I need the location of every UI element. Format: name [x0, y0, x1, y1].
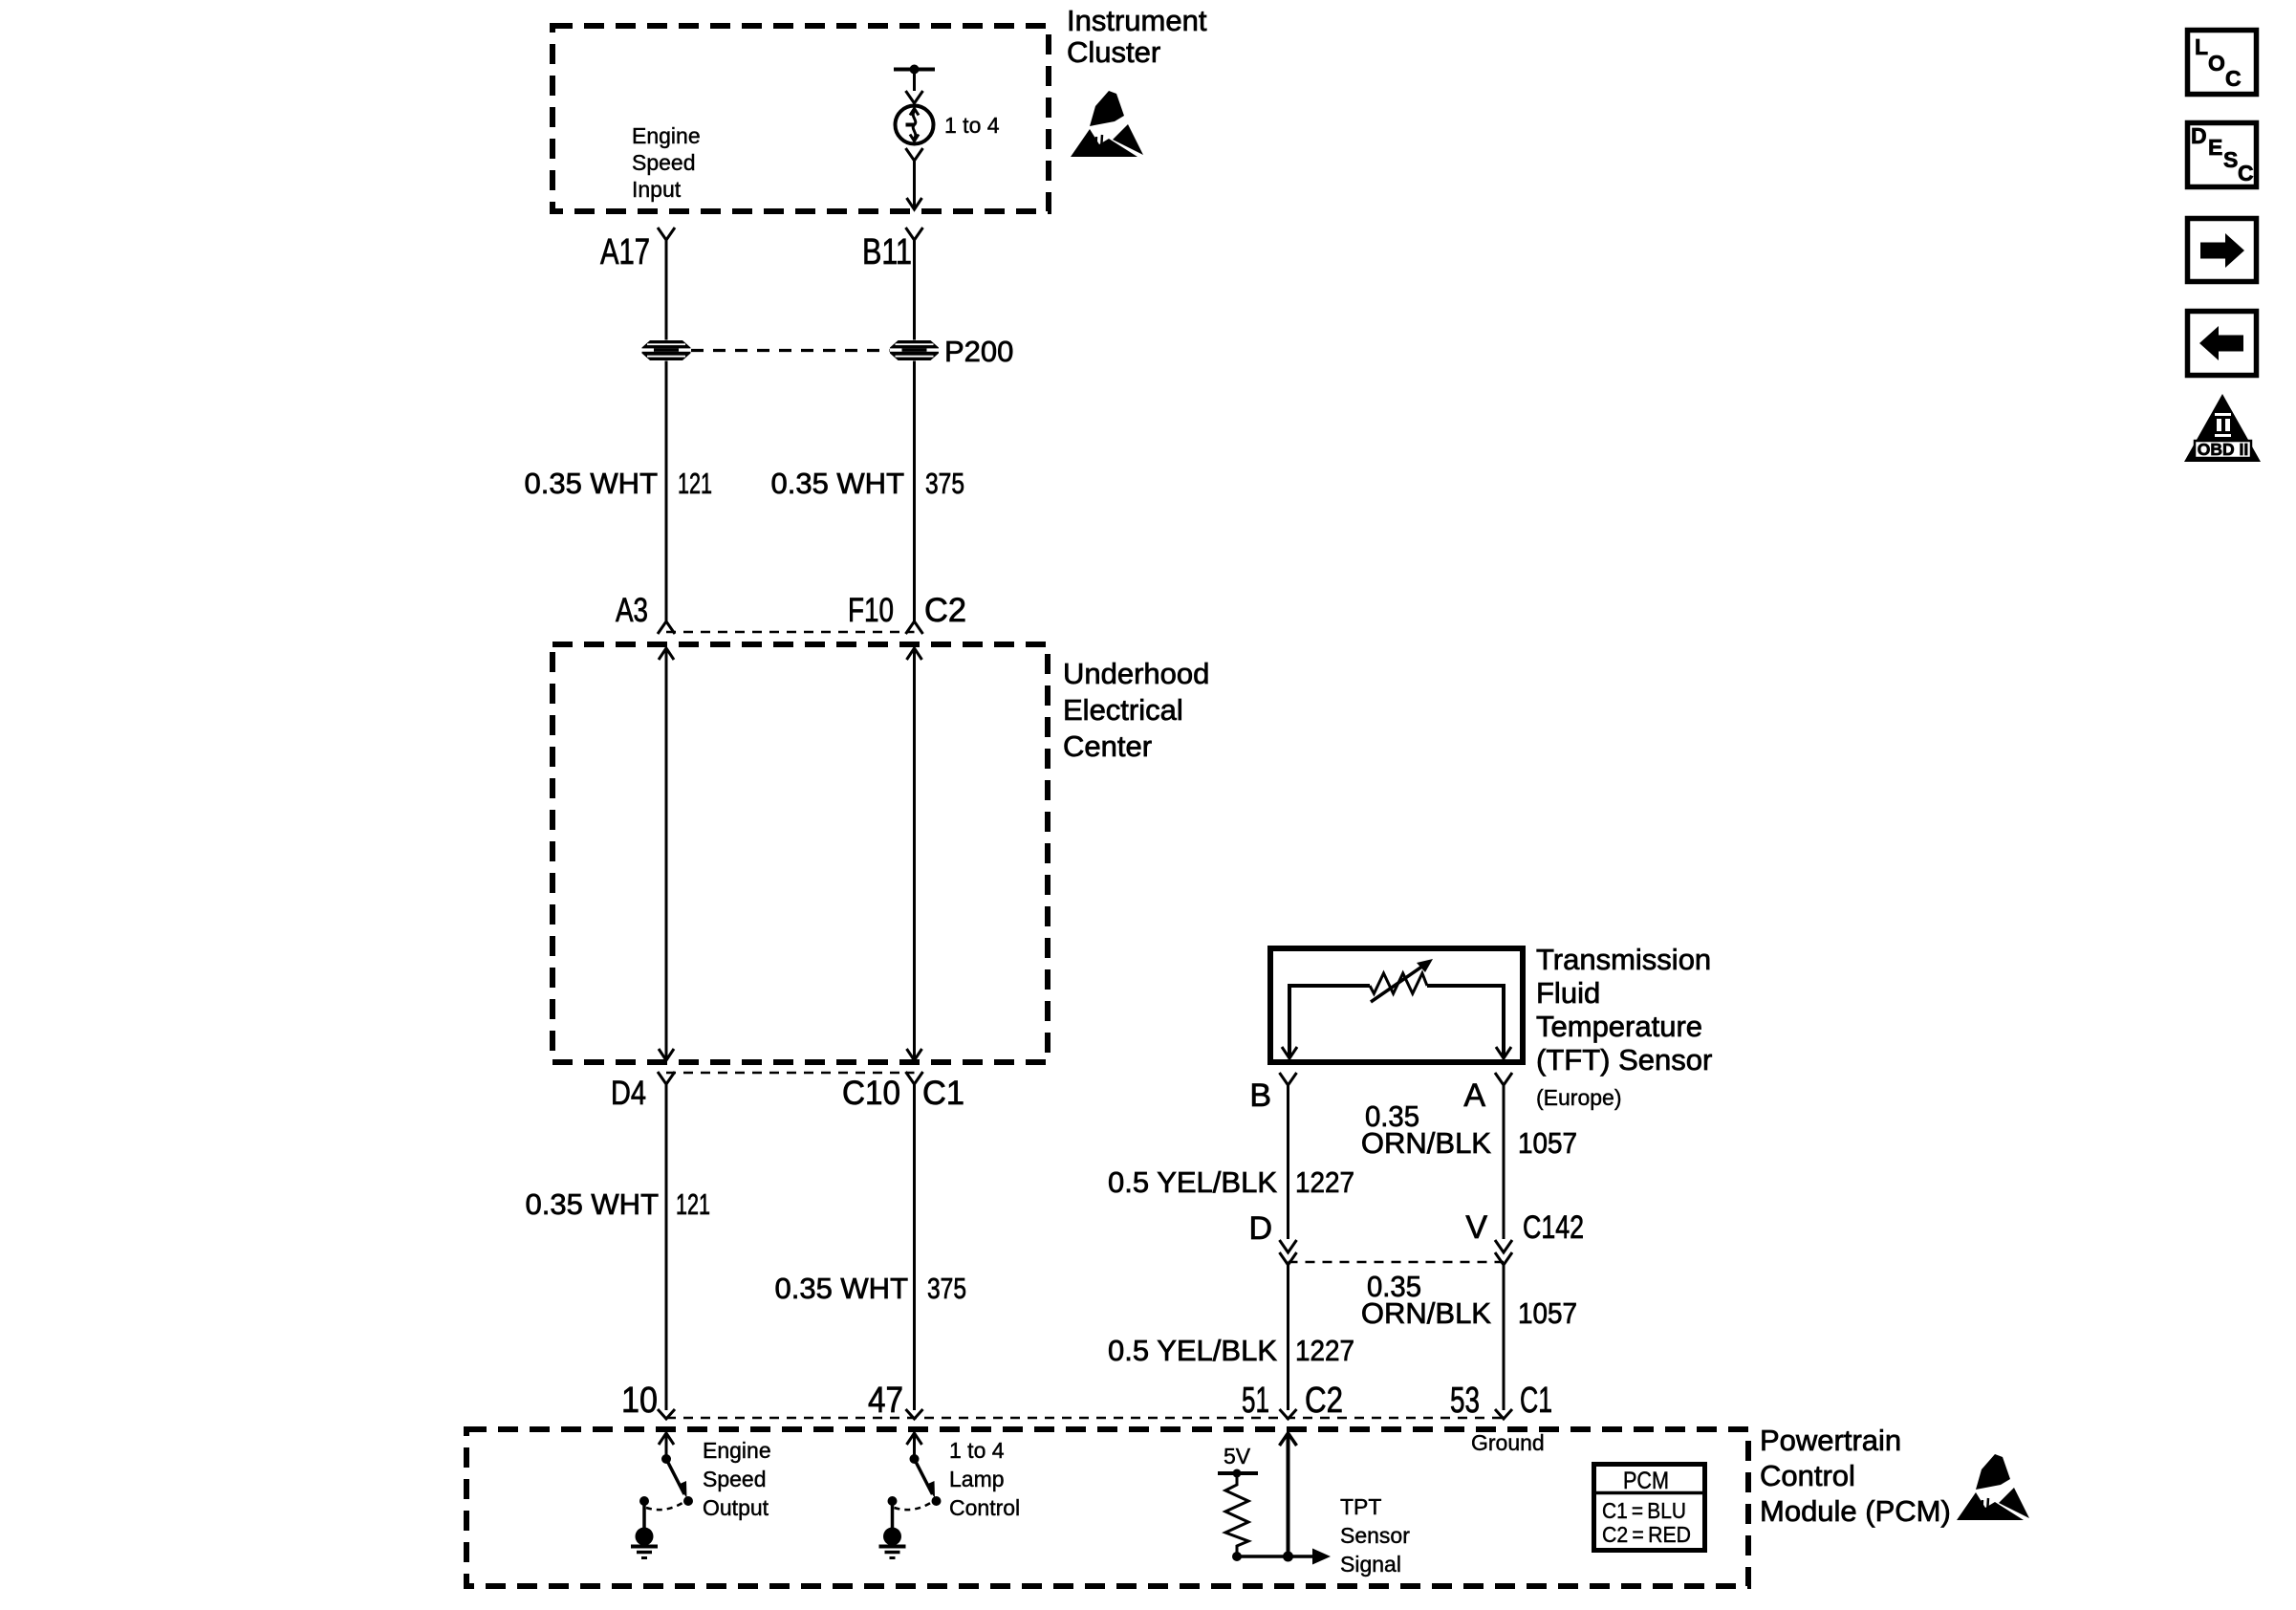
svg-text:Center: Center	[1063, 729, 1152, 763]
svg-text:E: E	[2208, 135, 2222, 160]
powertrain control module box	[466, 1429, 1748, 1586]
svg-text:Lamp: Lamp	[949, 1467, 1005, 1491]
C142 connector chevrons (right pair)	[1495, 1240, 1512, 1265]
C142 dashed connector line	[1289, 1261, 1505, 1264]
svg-text:PCM: PCM	[1623, 1468, 1669, 1494]
wire W1 mid segment	[665, 361, 668, 622]
svg-text:Engine: Engine	[703, 1438, 771, 1463]
ESD symbol (instrument cluster)	[1071, 91, 1143, 157]
TFT variable resistor arrow	[1371, 964, 1426, 1002]
arrow at TFT box bottom (left)	[1282, 1047, 1297, 1058]
1 to 4 lamp control label	[949, 1438, 1020, 1520]
forward arrow icon box	[2188, 219, 2257, 282]
svg-text:0.5 YEL/BLK: 0.5 YEL/BLK	[1108, 1165, 1277, 1199]
svg-text:A: A	[1463, 1077, 1485, 1114]
5V supply bar	[1218, 1471, 1258, 1475]
svg-text:Ground: Ground	[1471, 1430, 1545, 1455]
wire W1 inside underhood box	[665, 648, 668, 1060]
svg-text:C10: C10	[842, 1075, 900, 1112]
C142 connector chevrons (left pair)	[1280, 1240, 1297, 1265]
thin dashed connector line (A3-F10)	[666, 631, 915, 634]
svg-text:ORN/BLK: ORN/BLK	[1361, 1296, 1491, 1330]
arrow at underhood box bottom (right)	[907, 1049, 922, 1060]
svg-text:D: D	[1248, 1210, 1272, 1247]
svg-text:Module (PCM): Module (PCM)	[1760, 1494, 1951, 1528]
svg-text:Input: Input	[632, 177, 682, 202]
wire W2 lower segment	[913, 1084, 916, 1410]
TPT sensor signal wire	[1237, 1555, 1313, 1558]
junction dot resistor bottom	[1232, 1552, 1242, 1561]
arrow into cluster edge (B11)	[907, 198, 922, 209]
wire label 0.5 YEL/BLK 1227 (lower)	[1108, 1334, 1354, 1367]
wire W1 lower segment	[665, 1084, 668, 1410]
wire label 0.5 YEL/BLK 1227 (upper)	[1108, 1165, 1354, 1199]
TFT inner circuit wires	[1289, 986, 1370, 1057]
svg-text:Temperature: Temperature	[1536, 1010, 1702, 1043]
svg-text:D: D	[2191, 123, 2207, 148]
connector chevron pin 47	[906, 1409, 923, 1419]
junction dot signal node	[1283, 1552, 1293, 1562]
engine speed output label	[703, 1438, 771, 1520]
underhood electrical center label	[1063, 657, 1209, 763]
svg-text:O: O	[2208, 51, 2225, 76]
svg-text:1227: 1227	[1295, 1165, 1354, 1199]
DESC icon box	[2188, 123, 2257, 187]
svg-text:Underhood: Underhood	[1063, 657, 1209, 690]
svg-text:C2 = RED: C2 = RED	[1602, 1522, 1691, 1547]
connector chevron pin 53	[1495, 1409, 1512, 1419]
svg-text:C2: C2	[1305, 1381, 1343, 1421]
wire W3 upper segment	[1287, 1085, 1289, 1239]
connector chevron pin 10	[658, 1409, 675, 1419]
svg-text:(Europe): (Europe)	[1536, 1085, 1621, 1110]
svg-text:5V: 5V	[1224, 1444, 1251, 1469]
svg-text:1057: 1057	[1518, 1126, 1577, 1160]
arrow into underhood box (left)	[659, 648, 674, 660]
svg-text:51: 51	[1242, 1381, 1269, 1421]
gauge supply bar	[894, 68, 935, 72]
svg-text:375: 375	[927, 1272, 966, 1305]
PCM legend separator	[1596, 1491, 1702, 1495]
gauge symbol (1 to 4 shift lamp driver)	[896, 106, 934, 144]
svg-text:121: 121	[678, 467, 712, 500]
svg-text:Control: Control	[949, 1495, 1020, 1520]
P200 pass-through grommet (right)	[890, 340, 939, 360]
svg-text:Electrical: Electrical	[1063, 693, 1183, 727]
connector chevron below gauge	[906, 148, 923, 161]
svg-text:C142: C142	[1523, 1209, 1584, 1246]
svg-text:C: C	[2238, 161, 2254, 185]
P200 dashed link	[691, 349, 890, 352]
wire W2 upper segment	[913, 240, 916, 340]
connector chevron B11	[906, 228, 923, 240]
svg-text:Cluster: Cluster	[1067, 35, 1160, 69]
svg-text:C1: C1	[922, 1075, 964, 1112]
engine speed input label	[632, 123, 701, 202]
thin dashed connector line (D4-C10)	[666, 1072, 915, 1075]
PCM legend box	[1594, 1465, 1705, 1551]
instrument cluster box	[552, 26, 1049, 211]
powertrain control module label	[1760, 1424, 1951, 1528]
wire W2 inside underhood box	[913, 648, 916, 1060]
wire W2 mid segment	[913, 361, 916, 622]
svg-text:S: S	[2223, 147, 2238, 172]
svg-text:(TFT) Sensor: (TFT) Sensor	[1536, 1043, 1712, 1077]
wire W4 upper segment	[1503, 1085, 1505, 1239]
wire label 0.35 WHT 375 (upper)	[770, 467, 964, 500]
svg-text:A3: A3	[616, 592, 648, 629]
TFT sensor label	[1536, 943, 1712, 1077]
thin dashed connector line (PCM top)	[666, 1417, 1504, 1420]
wire W4 lower segment	[1503, 1265, 1505, 1410]
wire gauge stem	[913, 70, 916, 92]
svg-text:0.35 WHT: 0.35 WHT	[525, 1187, 659, 1221]
svg-text:0.5 YEL/BLK: 0.5 YEL/BLK	[1108, 1334, 1277, 1367]
svg-text:A17: A17	[600, 232, 650, 272]
instrument cluster label	[1067, 4, 1207, 69]
svg-text:375: 375	[925, 467, 964, 500]
svg-text:10: 10	[621, 1381, 658, 1421]
junction dot 5V	[1233, 1469, 1242, 1478]
svg-text:F10: F10	[848, 592, 894, 629]
connector chevron F10	[906, 621, 923, 634]
connector chevron D4	[658, 1072, 675, 1084]
svg-text:C2: C2	[924, 592, 966, 629]
svg-text:Fluid: Fluid	[1536, 976, 1600, 1010]
connector chevron A17	[658, 228, 675, 240]
svg-text:Speed: Speed	[632, 150, 696, 175]
wire W1 upper segment	[665, 240, 668, 340]
connector chevron pin 51	[1280, 1409, 1297, 1419]
wire label 0.35 WHT 121 (lower)	[525, 1187, 710, 1221]
svg-text:P200: P200	[944, 335, 1013, 368]
pull-up resistor	[1225, 1473, 1248, 1556]
svg-text:C: C	[2225, 66, 2242, 91]
wire gauge to cluster edge	[913, 161, 916, 209]
TPT signal arrowhead	[1312, 1549, 1331, 1565]
svg-text:ORN/BLK: ORN/BLK	[1361, 1126, 1491, 1160]
TFT variable resistor zigzag	[1370, 973, 1427, 993]
svg-text:C1 = BLU: C1 = BLU	[1602, 1498, 1686, 1523]
svg-text:1057: 1057	[1518, 1296, 1577, 1330]
wire label 0.35 WHT 375 (lower)	[774, 1272, 966, 1305]
svg-text:OBD II: OBD II	[2198, 440, 2248, 459]
transmission fluid temperature (TFT) sensor box	[1270, 948, 1523, 1062]
arrow at TFT box bottom (right)	[1496, 1047, 1511, 1058]
svg-text:B11: B11	[862, 232, 912, 272]
wire label 0.35 WHT 121 (upper)	[524, 467, 712, 500]
svg-text:TPT: TPT	[1340, 1494, 1381, 1519]
P200 pass-through grommet (left)	[642, 340, 691, 360]
svg-text:Signal: Signal	[1340, 1552, 1401, 1577]
svg-text:C1: C1	[1520, 1381, 1552, 1421]
svg-text:Sensor: Sensor	[1340, 1523, 1410, 1548]
connector chevron C10	[906, 1072, 923, 1084]
svg-text:V: V	[1465, 1209, 1487, 1246]
connector chevron B	[1280, 1073, 1297, 1085]
svg-text:1227: 1227	[1295, 1334, 1354, 1367]
arrow at underhood box bottom (left)	[659, 1049, 674, 1060]
svg-text:0.35 WHT: 0.35 WHT	[524, 467, 658, 500]
svg-text:0.35 WHT: 0.35 WHT	[774, 1272, 908, 1305]
svg-text:Control: Control	[1760, 1459, 1855, 1492]
OBD II icon	[2184, 394, 2261, 462]
wire label 0.35 ORN/BLK 1057 (upper)	[1361, 1099, 1577, 1160]
connector chevron A3	[658, 621, 675, 634]
TPT sensor signal label	[1340, 1494, 1410, 1577]
signal sense wire (W3 inside PCM)	[1287, 1436, 1290, 1556]
svg-text:Transmission: Transmission	[1536, 943, 1711, 976]
connector chevron gauge top	[906, 91, 923, 103]
svg-text:Instrument: Instrument	[1067, 4, 1207, 37]
svg-text:Powertrain: Powertrain	[1760, 1424, 1901, 1457]
ESD symbol (PCM)	[1957, 1454, 2029, 1520]
connector chevron A	[1495, 1073, 1512, 1085]
svg-text:L: L	[2195, 34, 2208, 59]
svg-text:47: 47	[868, 1381, 903, 1421]
svg-text:1 to 4: 1 to 4	[944, 113, 1000, 138]
svg-text:53: 53	[1450, 1381, 1480, 1421]
junction dot gauge bar	[910, 65, 920, 75]
svg-text:1 to 4: 1 to 4	[949, 1438, 1005, 1463]
back arrow icon box	[2188, 312, 2257, 376]
LOC icon box	[2188, 31, 2257, 95]
svg-text:D4: D4	[611, 1075, 646, 1112]
svg-text:Speed: Speed	[703, 1467, 767, 1491]
underhood electrical center box	[552, 644, 1048, 1062]
wire label 0.35 ORN/BLK 1057 (lower)	[1361, 1270, 1577, 1330]
svg-text:Engine: Engine	[632, 123, 701, 148]
arrow up signal sense	[1280, 1433, 1297, 1446]
svg-text:121: 121	[676, 1187, 710, 1221]
svg-text:B: B	[1249, 1077, 1271, 1114]
svg-text:0.35 WHT: 0.35 WHT	[770, 467, 904, 500]
svg-text:Output: Output	[703, 1495, 769, 1520]
wire W3 lower segment	[1287, 1265, 1289, 1410]
1 to 4 lamp control switch	[879, 1433, 942, 1558]
engine speed output switch	[631, 1433, 693, 1558]
arrow into underhood box (right)	[907, 648, 922, 660]
